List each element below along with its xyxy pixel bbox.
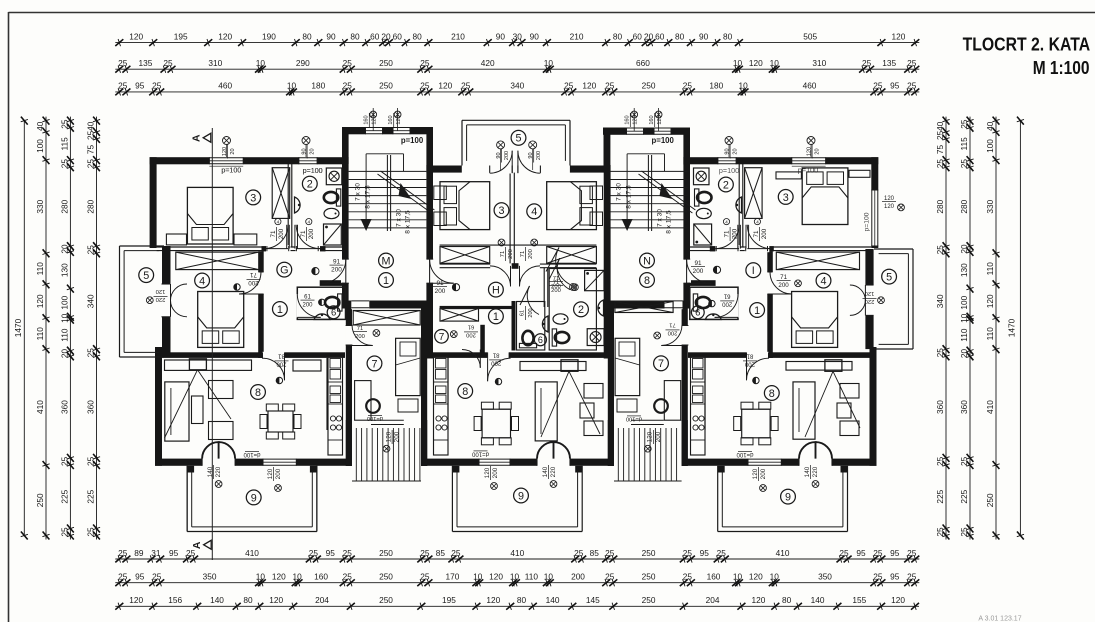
- svg-text:61: 61: [468, 324, 474, 330]
- wall right-unit hall I bottom: [690, 280, 716, 286]
- svg-text:A: A: [191, 541, 203, 549]
- sideboard2 left living: [293, 360, 321, 371]
- svg-text:85: 85: [436, 548, 446, 558]
- bench right bedroom3: [234, 234, 257, 245]
- door mid bath2: [549, 258, 578, 294]
- svg-text:115: 115: [59, 137, 69, 151]
- terrace 9 left railing: [187, 466, 317, 532]
- svg-text:250: 250: [985, 493, 995, 507]
- room circle 7 mid: [435, 330, 449, 344]
- svg-text:410: 410: [776, 548, 790, 558]
- sideboard left living: [165, 360, 252, 370]
- dining table left living: [260, 404, 301, 439]
- door mid to room right: [546, 248, 576, 291]
- svg-text:A 3.01 123.17: A 3.01 123.17: [978, 616, 1021, 622]
- svg-text:660: 660: [636, 58, 650, 68]
- svg-text:204: 204: [706, 595, 720, 605]
- svg-text:460: 460: [218, 81, 232, 91]
- bed mid bedroom4: [547, 182, 597, 230]
- svg-text:4: 4: [307, 220, 310, 226]
- wall corridor7 right-left: [608, 309, 614, 466]
- svg-text:156: 156: [168, 595, 182, 605]
- svg-text:90: 90: [530, 31, 540, 41]
- wall stairwell N right: [683, 157, 690, 308]
- svg-text:25: 25: [152, 572, 162, 582]
- dimension chain right col 2: [959, 117, 974, 540]
- svg-text:61: 61: [520, 310, 526, 316]
- wall mid-unit bedrooms/hall: [440, 263, 597, 265]
- room circle 4 left: [195, 273, 210, 288]
- svg-text:60: 60: [393, 31, 403, 41]
- svg-text:120: 120: [806, 147, 812, 156]
- svg-text:8 x 17,5: 8 x 17,5: [365, 185, 372, 209]
- svg-text:195: 195: [174, 31, 188, 41]
- svg-text:61: 61: [723, 293, 730, 299]
- armchair right living 2: [840, 421, 859, 436]
- room circle 6 mid: [534, 334, 546, 346]
- dimension chain right col 3: [985, 117, 1000, 540]
- terrace stub right-a: [718, 466, 725, 473]
- wall mid-unit bath2 box: [549, 269, 596, 351]
- room circle 4 mid: [527, 204, 542, 219]
- svg-text:225: 225: [935, 489, 945, 503]
- sink mid bath2: [598, 300, 604, 316]
- svg-text:140: 140: [542, 466, 549, 477]
- wall left room4-balcony upper: [162, 246, 171, 284]
- svg-text:25: 25: [605, 548, 615, 558]
- svg-text:200: 200: [276, 361, 287, 367]
- svg-text:71: 71: [250, 271, 257, 278]
- svg-text:115: 115: [959, 137, 969, 151]
- svg-text:8: 8: [462, 386, 468, 398]
- svg-text:120: 120: [267, 468, 274, 479]
- closet mid bedroom4: [547, 247, 597, 264]
- svg-text:d=100: d=100: [471, 451, 489, 457]
- outer wall bottom right: [687, 459, 877, 466]
- dimension chain left col 2: [35, 117, 50, 540]
- svg-text:120: 120: [129, 31, 143, 41]
- svg-text:25: 25: [873, 81, 883, 91]
- svg-text:25: 25: [343, 572, 353, 582]
- svg-text:25: 25: [574, 548, 584, 558]
- svg-text:120: 120: [272, 572, 286, 582]
- terrace 9 right circle: [781, 489, 796, 504]
- dimension chain top row 3: [115, 81, 919, 96]
- svg-text:200: 200: [331, 267, 342, 274]
- svg-text:90: 90: [699, 31, 709, 41]
- svg-text:G: G: [280, 265, 288, 277]
- svg-text:4: 4: [820, 276, 826, 288]
- dimension chain left overall 1470: [13, 117, 28, 540]
- svg-text:160: 160: [625, 115, 631, 124]
- svg-text:90: 90: [326, 31, 336, 41]
- svg-text:71: 71: [780, 274, 787, 281]
- svg-text:340: 340: [86, 294, 96, 308]
- svg-text:25: 25: [343, 81, 353, 91]
- wall corridor7 left-right: [421, 309, 427, 466]
- armchair right living 1: [840, 384, 859, 399]
- svg-text:25: 25: [343, 548, 353, 558]
- cabinet corridor7 left: [355, 381, 371, 421]
- room circle 4 right: [816, 273, 831, 288]
- svg-text:95: 95: [326, 548, 336, 558]
- window left bedroom3 top: [209, 137, 243, 175]
- svg-text:120: 120: [269, 595, 283, 605]
- svg-text:140: 140: [811, 595, 825, 605]
- dimension chain bottom row 2: [115, 572, 919, 587]
- svg-text:25: 25: [420, 58, 430, 68]
- svg-text:I: I: [752, 265, 755, 277]
- svg-text:25: 25: [564, 81, 574, 91]
- wardrobe left room4: [176, 252, 259, 270]
- exterior stairs left: [346, 420, 427, 481]
- door right bath6: [709, 293, 738, 318]
- svg-text:7: 7: [658, 358, 664, 370]
- svg-text:120: 120: [35, 294, 45, 308]
- svg-text:330: 330: [985, 199, 995, 213]
- svg-text:7: 7: [439, 332, 445, 343]
- armchair left living 1: [209, 381, 234, 399]
- svg-text:360: 360: [935, 400, 945, 414]
- svg-text:220: 220: [215, 466, 222, 477]
- svg-text:250: 250: [379, 81, 393, 91]
- door I to stairwell N: [682, 259, 720, 283]
- room circle 3 left: [246, 190, 261, 205]
- bidet mid bath2: [553, 314, 568, 324]
- shower left bath: [324, 224, 342, 245]
- svg-text:160: 160: [649, 115, 655, 124]
- svg-text:120: 120: [657, 115, 663, 124]
- svg-text:5: 5: [515, 133, 521, 145]
- svg-text:200: 200: [761, 228, 768, 239]
- svg-text:25: 25: [862, 58, 872, 68]
- svg-text:250: 250: [642, 548, 656, 558]
- svg-text:25: 25: [343, 58, 353, 68]
- svg-text:340: 340: [935, 294, 945, 308]
- wall left-unit bedroom3/hall: [157, 246, 342, 248]
- svg-text:25: 25: [683, 81, 693, 91]
- svg-text:71: 71: [520, 251, 526, 257]
- svg-text:20: 20: [644, 31, 654, 41]
- svg-text:2: 2: [723, 179, 729, 191]
- svg-text:290: 290: [296, 58, 310, 68]
- outer wall bottom middle: [425, 459, 611, 466]
- wall corridor7 left-left: [346, 309, 352, 466]
- svg-text:200: 200: [528, 308, 534, 317]
- svg-text:d=100: d=100: [736, 451, 754, 457]
- balcony 5 right circle: [882, 269, 897, 284]
- svg-text:71: 71: [753, 230, 760, 237]
- svg-text:200: 200: [466, 332, 476, 338]
- wc left bath6: [325, 294, 342, 311]
- svg-text:120: 120: [582, 81, 596, 91]
- dimension chain right col 1: [935, 117, 950, 540]
- balcony mid door labels: [496, 141, 542, 170]
- svg-text:7 x 30: 7 x 30: [396, 209, 403, 227]
- svg-text:25: 25: [118, 548, 128, 558]
- svg-text:25: 25: [683, 572, 693, 582]
- sink right bath6: [705, 314, 721, 320]
- svg-text:2: 2: [578, 304, 584, 316]
- svg-text:8 x 17,5: 8 x 17,5: [626, 185, 633, 209]
- svg-text:195: 195: [442, 595, 456, 605]
- hall G circle: [277, 262, 292, 277]
- wardrobe corridor7 left: [353, 311, 420, 326]
- svg-text:460: 460: [803, 81, 817, 91]
- terrace door left unit: [202, 442, 235, 466]
- balcony 5 left railing: [120, 246, 165, 357]
- svg-text:1: 1: [493, 311, 499, 323]
- svg-text:25: 25: [152, 81, 162, 91]
- svg-text:4: 4: [277, 220, 280, 226]
- svg-text:8: 8: [255, 387, 261, 399]
- armchair left living 2: [209, 422, 234, 440]
- wardrobe right room4: [776, 252, 859, 270]
- svg-text:7 x 30: 7 x 30: [616, 183, 623, 201]
- svg-text:200: 200: [508, 249, 514, 259]
- svg-text:81: 81: [278, 353, 285, 359]
- room circle 7 right-corridor: [654, 356, 669, 371]
- balcony door right unit: [850, 285, 884, 315]
- svg-text:25: 25: [873, 572, 883, 582]
- hall H circle: [489, 282, 504, 297]
- svg-text:d=100: d=100: [626, 416, 642, 422]
- section marker A top: [191, 133, 211, 142]
- svg-text:200: 200: [355, 334, 365, 340]
- hall I circle: [746, 263, 761, 278]
- terrace stub left-b: [310, 466, 317, 473]
- svg-text:225: 225: [959, 489, 969, 503]
- svg-text:110: 110: [525, 572, 539, 582]
- outer wall middle right segment: [570, 166, 604, 173]
- svg-text:25: 25: [605, 572, 615, 582]
- svg-text:p=100: p=100: [401, 136, 424, 145]
- svg-text:250: 250: [642, 81, 656, 91]
- svg-text:505: 505: [803, 31, 817, 41]
- svg-text:250: 250: [379, 548, 393, 558]
- balcony 5 middle circle: [511, 130, 526, 145]
- nightstand mid bedroom4 b: [590, 212, 603, 226]
- door left bath6: [297, 294, 325, 317]
- door corridor7 to stairs label: [367, 415, 404, 424]
- room circle 8 mid: [458, 384, 473, 399]
- svg-text:20: 20: [815, 148, 821, 154]
- svg-text:120: 120: [751, 595, 765, 605]
- svg-text:91: 91: [333, 258, 341, 265]
- svg-text:95: 95: [135, 572, 145, 582]
- svg-text:120: 120: [489, 572, 503, 582]
- door left bath2: [295, 219, 320, 253]
- svg-text:p=100: p=100: [652, 136, 675, 145]
- wall mid-unit closet strip top: [440, 244, 597, 246]
- wall mid-unit bedroom center: [509, 173, 511, 266]
- svg-text:81: 81: [492, 352, 499, 358]
- svg-text:200: 200: [491, 360, 502, 366]
- stairwell N bottom wall: [603, 301, 690, 309]
- outer wall right wing top: [690, 157, 878, 164]
- svg-text:170: 170: [445, 572, 459, 582]
- svg-text:120: 120: [222, 147, 228, 156]
- terrace stub mid-a: [452, 466, 459, 473]
- svg-text:90: 90: [301, 148, 307, 154]
- svg-text:200: 200: [278, 228, 285, 239]
- svg-text:250: 250: [642, 572, 656, 582]
- svg-text:61: 61: [304, 294, 311, 300]
- stairwell M top windows: [364, 108, 424, 145]
- wardrobe right bedroom3: [745, 168, 763, 219]
- dining table mid living: [474, 402, 518, 445]
- svg-text:190: 190: [262, 31, 276, 41]
- svg-text:25: 25: [605, 81, 615, 91]
- wall right room4-balcony upper: [865, 249, 873, 285]
- room circle 1 right: [750, 303, 765, 318]
- terrace stub right-b: [841, 466, 848, 473]
- svg-text:280: 280: [59, 199, 69, 213]
- nightstand mid bedroom3 a: [434, 186, 447, 200]
- wardrobe left bedroom3: [272, 168, 290, 219]
- outer wall right side lower: [870, 347, 877, 466]
- nightstand mid bedroom3 b: [434, 212, 447, 226]
- svg-text:80: 80: [412, 31, 422, 41]
- table corridor7 right: [617, 399, 637, 412]
- svg-text:9: 9: [251, 492, 257, 504]
- svg-text:95: 95: [890, 548, 900, 558]
- wall mid-unit kitchen side: [447, 355, 449, 430]
- svg-text:410: 410: [510, 548, 524, 558]
- dimension chain bottom row 3: [115, 595, 919, 610]
- svg-text:120: 120: [884, 204, 895, 210]
- svg-text:120: 120: [884, 196, 895, 202]
- svg-text:95: 95: [135, 81, 145, 91]
- door mid bedroom3 to hall: [490, 239, 514, 286]
- svg-text:120: 120: [438, 81, 452, 91]
- svg-text:120: 120: [156, 288, 166, 294]
- sofa right living: [793, 382, 815, 439]
- outer wall left wing top: [150, 157, 342, 164]
- sink left bath6: [314, 314, 330, 320]
- svg-text:120: 120: [396, 115, 402, 124]
- tv mid living: [541, 360, 600, 437]
- svg-text:160: 160: [364, 115, 370, 124]
- svg-text:250: 250: [379, 572, 393, 582]
- wall right-unit room4 left: [767, 251, 773, 358]
- svg-text:130: 130: [59, 263, 69, 277]
- svg-text:25: 25: [118, 58, 128, 68]
- svg-text:1470: 1470: [1006, 318, 1016, 337]
- boiler corridor7 left: [366, 399, 380, 413]
- svg-text:280: 280: [935, 199, 945, 213]
- nightstand right bedroom3: [776, 172, 801, 179]
- coffee table left living: [192, 396, 204, 424]
- svg-text:210: 210: [570, 31, 584, 41]
- svg-text:10: 10: [59, 313, 69, 323]
- svg-text:8 x 17,5: 8 x 17,5: [405, 210, 412, 234]
- svg-text:p=100: p=100: [864, 212, 871, 231]
- room circle 6 right: [691, 306, 704, 319]
- svg-text:1470: 1470: [13, 318, 23, 337]
- svg-text:155: 155: [852, 595, 866, 605]
- sink right bath: [736, 197, 742, 213]
- closet mid room1: [440, 309, 479, 322]
- svg-text:310: 310: [812, 58, 826, 68]
- svg-text:20: 20: [733, 148, 739, 154]
- svg-text:200: 200: [722, 301, 733, 307]
- svg-text:25: 25: [451, 548, 461, 558]
- svg-text:250: 250: [35, 493, 45, 507]
- daybed corridor7 left: [396, 338, 421, 395]
- terrace door middle unit: [537, 442, 570, 466]
- svg-text:3: 3: [498, 205, 504, 217]
- terrace 9 right railing: [718, 466, 848, 532]
- svg-text:25: 25: [907, 548, 917, 558]
- svg-text:80: 80: [517, 595, 527, 605]
- dimension chain bottom row 1: [115, 548, 919, 563]
- terrace door right labels: [736, 451, 819, 487]
- svg-text:71: 71: [300, 230, 307, 237]
- daybed corridor7 right: [615, 338, 640, 395]
- svg-text:250: 250: [642, 595, 656, 605]
- svg-text:100: 100: [985, 139, 995, 153]
- dimension chain top row 1: [115, 31, 919, 46]
- window middle living bottom: [479, 458, 510, 489]
- svg-text:25: 25: [683, 548, 693, 558]
- bench right bedroom3b: [849, 170, 870, 177]
- svg-text:25: 25: [118, 572, 128, 582]
- svg-text:250: 250: [379, 58, 393, 68]
- svg-text:210: 210: [451, 31, 465, 41]
- wall right-unit bath6 box: [690, 287, 738, 319]
- svg-text:180: 180: [311, 81, 325, 91]
- svg-text:25: 25: [420, 548, 430, 558]
- wall left-unit hall G bottom: [320, 280, 346, 286]
- svg-text:110: 110: [985, 327, 995, 341]
- svg-text:110: 110: [35, 327, 45, 341]
- kitchen right living: [691, 357, 706, 456]
- svg-text:7 x 30: 7 x 30: [355, 183, 362, 201]
- svg-text:200: 200: [668, 330, 678, 336]
- balcony door mid bedroom3: [490, 151, 513, 174]
- window left bath2 top: [299, 137, 323, 175]
- svg-text:4: 4: [756, 220, 759, 226]
- outer wall left side lower: [155, 347, 162, 466]
- svg-text:200: 200: [760, 468, 767, 479]
- svg-text:A: A: [191, 134, 203, 142]
- washer mid bath2: [587, 329, 604, 346]
- door mid room7: [450, 324, 480, 368]
- svg-text:220: 220: [156, 296, 166, 302]
- svg-text:10: 10: [959, 313, 969, 323]
- svg-text:120: 120: [865, 290, 875, 296]
- svg-text:71: 71: [553, 280, 559, 286]
- door corridor7 right: [654, 322, 689, 346]
- terrace 9 middle railing: [452, 466, 582, 532]
- svg-text:60: 60: [633, 31, 643, 41]
- bidet right bath: [696, 208, 711, 218]
- svg-text:135: 135: [138, 58, 152, 68]
- wc mid wc6: [519, 331, 536, 348]
- svg-text:60: 60: [370, 31, 380, 41]
- svg-text:120: 120: [484, 467, 491, 478]
- shower mid bath2: [585, 270, 604, 290]
- dimension chain top row 2: [115, 58, 919, 73]
- svg-text:p=100: p=100: [303, 168, 323, 175]
- svg-text:95: 95: [700, 548, 710, 558]
- stairwell M stairs: [349, 154, 435, 288]
- table corridor7 left: [398, 399, 418, 412]
- svg-text:71: 71: [500, 251, 506, 257]
- svg-text:220: 220: [550, 466, 557, 477]
- svg-text:350: 350: [203, 572, 217, 582]
